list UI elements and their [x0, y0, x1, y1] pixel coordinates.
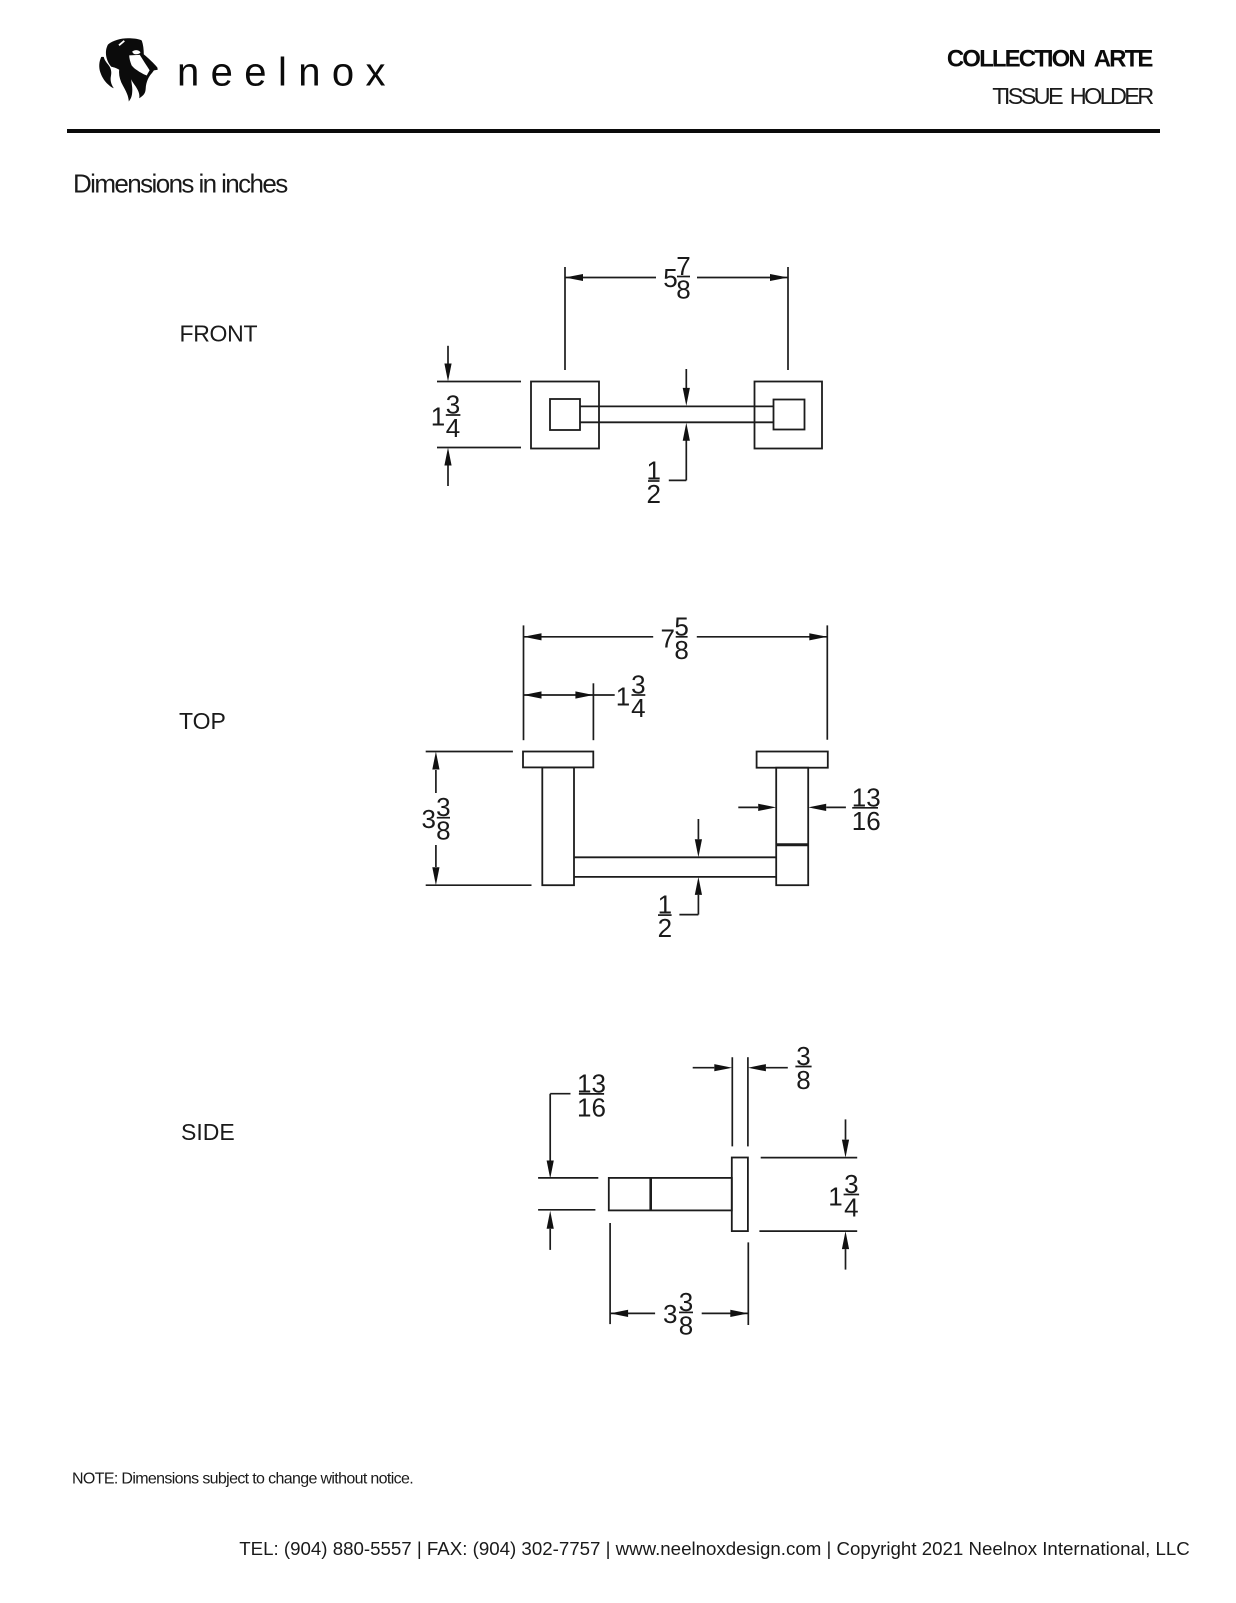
- top dim 3 3/8 line upper: [435, 770, 437, 793]
- logo horse head: [99, 38, 157, 101]
- svg-text:FRONT: FRONT: [180, 320, 258, 346]
- front dim 5 7/8 line left segment: [565, 277, 656, 279]
- front dim 1/2 leader horizontal: [669, 479, 687, 481]
- side dim 13/16 extension line bottom: [538, 1209, 595, 1211]
- side dim 1 3/4 extension line bottom: [759, 1230, 857, 1232]
- svg-text:4: 4: [446, 413, 460, 443]
- side dim 1 3/4 extension line top: [761, 1157, 858, 1159]
- side arrow 3/8 right: [714, 1064, 732, 1071]
- top dim 1/2 leader top: [697, 819, 699, 839]
- svg-text:1: 1: [431, 402, 445, 432]
- svg-text:1: 1: [828, 1182, 842, 1212]
- svg-text:8: 8: [674, 635, 688, 665]
- side dim 3/8 extension line left: [731, 1057, 733, 1146]
- side wall plate: [732, 1158, 748, 1232]
- side dim 1 3/4 leader bottom: [845, 1249, 847, 1270]
- logo wordmark neelnox: [177, 51, 397, 95]
- front dim 5 7/8 line right segment: [697, 277, 788, 279]
- side dim 13/16 lower leader: [549, 1229, 551, 1250]
- side dim 3/8 line left: [693, 1067, 715, 1069]
- svg-text:8: 8: [436, 816, 450, 846]
- side dim 13/16 leader vertical: [549, 1094, 551, 1161]
- top bar top edge: [574, 856, 776, 858]
- footer note: [72, 1471, 413, 1488]
- svg-text:NOTE: Dimensions subject to ch: NOTE: Dimensions subject to change witho…: [72, 1471, 413, 1488]
- svg-text:7: 7: [660, 623, 674, 653]
- top dim 1 3/4 line: [524, 694, 615, 696]
- svg-text:16: 16: [852, 806, 881, 836]
- header product title: [992, 83, 1153, 109]
- side post outline: [609, 1178, 732, 1211]
- svg-text:neelnox: neelnox: [177, 51, 397, 95]
- dimensions note: [73, 169, 288, 199]
- top dim 1/2 leader horizontal: [679, 914, 698, 916]
- svg-text:TISSUE HOLDER: TISSUE HOLDER: [992, 83, 1153, 109]
- header rule: [67, 129, 1160, 133]
- front right rosette inner square: [774, 400, 805, 430]
- top dim 3 3/8 extension line bottom: [426, 884, 532, 886]
- front dim 5 7/8 extension line right: [787, 267, 789, 370]
- svg-text:8: 8: [679, 1310, 693, 1340]
- side view label: [181, 1119, 235, 1145]
- top right flange: [757, 752, 828, 768]
- top arrow 7 5/8 right: [809, 633, 827, 640]
- svg-text:1: 1: [616, 682, 630, 712]
- top dim 13/16 line left: [738, 806, 758, 808]
- side dim 3 3/8 extension line left: [609, 1223, 611, 1324]
- side arrow 3 3/8 left: [610, 1310, 628, 1317]
- top dim 3 3/8 extension line top: [426, 751, 513, 753]
- svg-text:8: 8: [796, 1065, 810, 1095]
- front left rosette inner square: [550, 399, 580, 430]
- side post divider line: [649, 1178, 652, 1211]
- svg-text:3: 3: [663, 1299, 677, 1329]
- front dim 1/2 leader bottom vertical: [685, 440, 687, 480]
- front arrow 1/2 up: [683, 423, 690, 441]
- top arrow 1 3/4 right: [575, 691, 593, 698]
- svg-text:3: 3: [421, 804, 435, 834]
- top arrow 13/16 left: [808, 804, 826, 811]
- side arrow 3/8 left: [748, 1064, 766, 1071]
- top arrow 7 5/8 left: [524, 633, 542, 640]
- front dim 1 3/4 extension line bottom: [437, 447, 521, 449]
- side arrow 13/16 up: [547, 1211, 554, 1229]
- front dim 1 3/4 leader top: [447, 346, 449, 364]
- side arrow 13/16 down: [547, 1161, 554, 1179]
- top bar bottom edge: [574, 876, 776, 878]
- front arrow 1 3/4 top: [444, 364, 451, 382]
- front bar bottom edge: [580, 421, 774, 423]
- top view label: [179, 708, 226, 734]
- side dim 13/16 extension line top: [538, 1177, 598, 1179]
- front dim 1/2 leader top: [685, 369, 687, 388]
- front left rosette outer square: [531, 382, 599, 449]
- side dim 3/8 line right: [766, 1067, 788, 1069]
- top arrow 3 3/8 up: [432, 752, 439, 770]
- svg-text:Dimensions in inches: Dimensions in inches: [73, 169, 288, 199]
- side arrow 1 3/4 down: [842, 1140, 849, 1158]
- top dim 1/2 leader bottom vertical: [697, 895, 699, 915]
- svg-text:TEL: (904) 880-5557 | FAX: (90: TEL: (904) 880-5557 | FAX: (904) 302-775…: [239, 1538, 1190, 1559]
- front arrow 1 3/4 bottom: [444, 448, 451, 466]
- top dim 13/16 line right: [826, 806, 846, 808]
- svg-text:4: 4: [844, 1193, 858, 1223]
- svg-text:2: 2: [658, 913, 672, 943]
- front dim 5 7/8 extension line left: [564, 267, 566, 370]
- top left flange: [523, 752, 593, 768]
- front arrow 1/2 down: [683, 388, 690, 406]
- side arrow 1 3/4 up: [842, 1231, 849, 1249]
- top dim 7 5/8 line left segment: [524, 636, 654, 638]
- front dim 1 3/4 extension line top: [437, 381, 521, 383]
- front right rosette outer square: [755, 382, 823, 449]
- side arrow 3 3/8 right: [730, 1310, 748, 1317]
- svg-text:4: 4: [631, 693, 645, 723]
- top arrow 3 3/8 down: [432, 867, 439, 885]
- svg-text:8: 8: [676, 275, 690, 305]
- side dim 13/16 leader horizontal: [550, 1093, 570, 1095]
- top dim 1 3/4 extension line: [592, 683, 594, 740]
- top dim 7 5/8 extension line left: [523, 625, 525, 740]
- side dim 3/8 extension line right: [747, 1057, 749, 1146]
- header collection title: [947, 46, 1154, 73]
- front arrow 5 7/8 right: [770, 274, 788, 281]
- svg-text:2: 2: [646, 479, 660, 509]
- top dim 3 3/8 line lower: [435, 845, 437, 867]
- top left post: [542, 767, 574, 885]
- top right post: [776, 768, 808, 886]
- top arrow 1/2 down: [695, 839, 702, 857]
- svg-text:COLLECTION ARTE: COLLECTION ARTE: [947, 46, 1154, 73]
- front view label: [180, 320, 258, 346]
- svg-text:TOP: TOP: [179, 708, 226, 734]
- side dim 3 3/8 extension line right: [747, 1242, 749, 1325]
- top dim 7 5/8 extension line right: [826, 625, 828, 739]
- side dim 3 3/8 line left segment: [610, 1312, 655, 1314]
- top right post joint line: [776, 843, 808, 846]
- side dim 1 3/4 leader top: [845, 1119, 847, 1139]
- front arrow 5 7/8 left: [565, 274, 583, 281]
- top dim 7 5/8 line right segment: [697, 636, 828, 638]
- front dim 1 3/4 leader bottom: [447, 465, 449, 486]
- side dim 3 3/8 line right segment: [702, 1312, 749, 1314]
- svg-text:SIDE: SIDE: [181, 1119, 235, 1145]
- top arrow 1/2 up: [695, 877, 702, 895]
- footer contact line: [239, 1538, 1190, 1559]
- svg-text:16: 16: [577, 1092, 606, 1122]
- top arrow 13/16 right: [758, 804, 776, 811]
- top arrow 1 3/4 left: [524, 691, 542, 698]
- front bar top edge: [580, 405, 774, 407]
